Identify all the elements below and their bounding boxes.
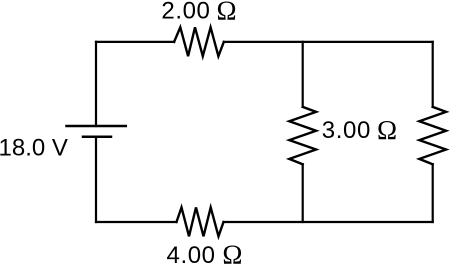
svg-text:Ω: Ω — [377, 115, 397, 145]
wire right lower — [432, 164, 434, 222]
wire bottom-right segment — [224, 221, 433, 223]
wire bottom-left segment — [96, 221, 177, 223]
wire right upper — [432, 42, 434, 107]
svg-text:2.00: 2.00 — [161, 0, 210, 25]
svg-text:3.00: 3.00 — [322, 117, 371, 144]
svg-text:Ω: Ω — [222, 239, 242, 264]
resistor R1 2.00 ohm — [174, 27, 224, 56]
wire top-right segment — [224, 41, 433, 43]
wire top-left segment — [96, 41, 174, 43]
svg-text:Ω: Ω — [217, 0, 237, 25]
svg-text:18.0 V: 18.0 V — [0, 135, 68, 162]
battery V1 negative plate — [83, 136, 111, 139]
resistor R4 right branch — [419, 107, 446, 164]
wire left lower — [95, 137, 97, 222]
resistor R2 4.00 ohm — [177, 207, 224, 236]
svg-text:4.00: 4.00 — [167, 242, 216, 264]
wire middle lower — [302, 164, 304, 222]
battery V1 positive plate — [67, 125, 126, 128]
wire middle upper — [302, 42, 304, 107]
resistor R3 3.00 ohm — [289, 107, 316, 164]
wire left upper — [95, 42, 97, 126]
